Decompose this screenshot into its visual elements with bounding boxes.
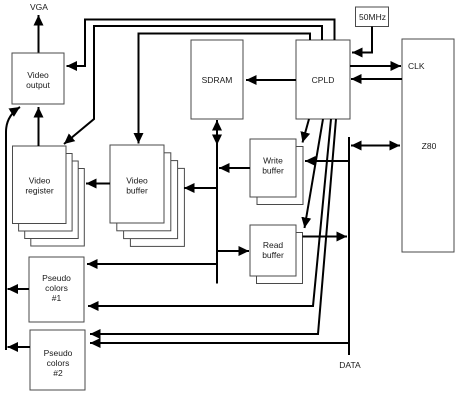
wire CPLD to SDRAM [246,79,296,81]
svg-text:Pseudo: Pseudo [42,273,71,283]
wire SDRAM memory bus (bidirectional, vertical x=217) [216,120,218,145]
wire memory bus to Video buffer [184,187,217,189]
svg-text:Video: Video [27,70,49,80]
block 50MHz oscillator [356,7,389,27]
block Video buffer (stack of 4) [110,145,184,246]
svg-text:buffer: buffer [262,166,284,176]
wire left bus up to Video output [6,107,20,350]
svg-text:50MHz: 50MHz [359,12,386,22]
wire memory bus vertical continuation [216,140,218,284]
wire data bus to Write buffer [305,160,349,162]
wire data bus to Pseudo colors #2 [90,342,349,344]
wire CPLD pin1 to Write buffer [303,119,310,143]
wire Video register to Video output [38,107,40,146]
wire CPLD pin2 to Read buffer [305,119,324,228]
svg-text:#2: #2 [53,368,63,378]
svg-text:#1: #1 [52,293,62,303]
svg-text:buffer: buffer [262,250,284,260]
wire Read buffer to data bus [303,236,348,238]
block Video output [12,53,64,104]
wire CPLD pin3 to Pseudo colors #1 [88,119,331,306]
wire Pseudo colors #2 to left bus [8,346,31,348]
wire Z80 to CPLD [351,78,402,80]
wire memory bus to Read buffer [217,250,249,252]
svg-text:Video: Video [29,176,51,186]
wire 50MHz to CPLD [352,27,372,53]
wire Z80 data bus (bidirectional) [351,145,400,147]
svg-text:CPLD: CPLD [312,75,335,85]
svg-text:register: register [25,186,54,196]
wire CPLD pin4 to Pseudo colors #2 [90,119,336,334]
block SDRAM [191,40,243,119]
wire Pseudo colors #1 to left bus [8,288,30,290]
svg-text:Z80: Z80 [422,141,437,151]
svg-text:Read: Read [263,240,284,250]
svg-text:SDRAM: SDRAM [202,75,233,85]
block Pseudo colors #2 [30,330,85,390]
wire Video buffer to Video register [86,183,110,185]
svg-text:buffer: buffer [126,186,148,196]
wire CPLD to Z80 CLK [350,65,401,67]
svg-text:Pseudo: Pseudo [44,348,73,358]
block Write buffer (stack of 2) [250,139,303,205]
wire VGA arrow from Video output [38,15,40,53]
block Video register (stack of 4) [13,146,85,246]
wire Write buffer to memory bus [219,167,250,169]
svg-text:DATA: DATA [339,360,361,370]
svg-text:output: output [26,80,50,90]
svg-text:VGA: VGA [30,2,48,12]
block Z80 with CLK pin label [402,39,454,252]
wire CPLD top to Video register (rail y=26, diagonal) [64,26,322,144]
block Pseudo colors #1 [29,257,84,322]
svg-text:colors: colors [45,283,68,293]
svg-text:Video: Video [126,176,148,186]
wire CPLD top to Video buffer (rail y=33.5) [139,34,311,144]
wire CPLD top to Video output (rail y=19.5) [67,20,335,67]
wire memory bus to Pseudo colors #1 [87,263,217,265]
wire data bus vertical x=349 [348,137,350,355]
block Read buffer (stack of 2) [250,225,303,284]
svg-text:colors: colors [47,358,70,368]
block CPLD [296,40,350,119]
svg-text:CLK: CLK [408,61,425,71]
svg-text:Write: Write [263,156,283,166]
